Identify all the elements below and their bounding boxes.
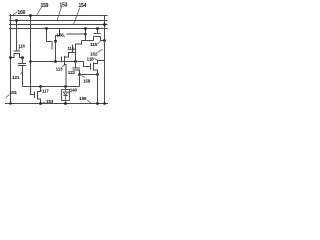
- node junction transistor A source on y61: [54, 60, 57, 63]
- wire 153 bus line L2: [9, 20, 108, 22]
- transistor A gate bar: [51, 42, 53, 50]
- wire 159 bus line L1: [9, 15, 108, 17]
- wire from node down to storage wire y87: [79, 75, 81, 87]
- svg-text:159: 159: [41, 3, 49, 9]
- wire 152 power line vertical right: [104, 16, 106, 104]
- wire 156 bus line L4: [9, 28, 108, 30]
- transistor 115: [94, 29, 105, 41]
- node junction on L4 at x85.5: [84, 27, 87, 30]
- node junction 118 source on y74.5: [96, 73, 99, 76]
- svg-text:153: 153: [46, 99, 54, 104]
- leader for label 154: [74, 8, 81, 25]
- transistor 114 gate bar: [72, 45, 74, 50]
- diode inside 140: [63, 87, 67, 104]
- svg-text:158: 158: [83, 79, 91, 84]
- transistor 117 channel bar: [37, 91, 39, 100]
- svg-text:117: 117: [42, 88, 49, 93]
- leader for label 115: [98, 41, 101, 44]
- svg-text:122: 122: [68, 70, 76, 75]
- light-emitting element 140 box: [62, 90, 70, 101]
- node junction on L4: [45, 27, 48, 30]
- leader for label 153 bottom: [43, 102, 46, 103]
- leader for label 116: [19, 48, 21, 51]
- wire top lead of 117: [38, 87, 41, 92]
- svg-text:156,: 156,: [57, 32, 65, 37]
- leader for label 121: [21, 72, 23, 75]
- wire bottom lead of 118 down to 155: [94, 70, 98, 104]
- leader for label 155: [87, 100, 91, 103]
- svg-text:153: 153: [60, 3, 68, 9]
- svg-text:121: 121: [12, 75, 20, 81]
- wire bottom lead of 113: [65, 65, 67, 87]
- wire bottom lead of 117: [38, 99, 41, 104]
- svg-text:154: 154: [79, 3, 87, 9]
- leader for label 117: [41, 90, 42, 92]
- wire 154 bus line L3: [9, 24, 108, 26]
- svg-text:155: 155: [79, 96, 87, 102]
- svg-text:113: 113: [56, 67, 63, 72]
- leader for label 152: [98, 49, 103, 52]
- wire gate lead of transistor 116 from L2: [16, 21, 18, 52]
- transistor 114 channel bar: [75, 44, 77, 52]
- wire gate lead of 118: [84, 62, 91, 67]
- svg-text:115: 115: [90, 42, 98, 48]
- svg-text:116: 116: [18, 43, 25, 48]
- node junction 152 on L3: [103, 23, 106, 26]
- node junction on L1: [29, 14, 32, 17]
- wire top lead of transistor A jog to L4: [56, 29, 60, 42]
- transistor 113 channel bar: [64, 56, 66, 66]
- svg-text:151: 151: [10, 90, 18, 96]
- node junction capacitor 122 bottom: [78, 73, 81, 76]
- node junction on L2: [15, 19, 18, 22]
- transistor 118 channel bar: [93, 63, 95, 71]
- wire 156 stub: [67, 33, 86, 35]
- node junction 140 top on y87: [64, 85, 67, 88]
- wire 160 vertical signal line: [10, 14, 12, 104]
- capacitor 122: [73, 62, 81, 75]
- node junction 117 source on 155: [39, 102, 42, 105]
- node junction 152 on 155: [103, 102, 106, 105]
- transistor 118 gate bar: [90, 64, 92, 70]
- leader for label 158: [82, 76, 86, 78]
- node capacitor 121 top junction: [21, 56, 24, 59]
- node junction 117 drain on y87: [39, 85, 42, 88]
- node junction 118 source on 155: [96, 102, 99, 105]
- svg-text:160: 160: [18, 10, 26, 16]
- leader for label 151: [6, 95, 10, 98]
- leader for label 159: [37, 7, 42, 15]
- wire top lead of 113: [65, 53, 76, 58]
- leader for label 153: [57, 7, 62, 20]
- wire top lead of 114: [76, 41, 82, 45]
- svg-text:118: 118: [87, 56, 95, 62]
- transistor A channel and source lead: [55, 41, 57, 61]
- node junction at transistor A drain: [54, 40, 57, 43]
- svg-text:140: 140: [70, 88, 78, 93]
- capacitor 121: [18, 58, 26, 87]
- wire vertical from L1 to gate of transistor 117: [31, 16, 35, 95]
- transistor 117 gate bar: [34, 92, 36, 99]
- node junction 115 drain on wiring 152: [103, 39, 106, 42]
- wire bottom lead of 114: [75, 51, 77, 62]
- leader for label 118: [94, 58, 98, 61]
- wire 155 bottom bus: [5, 103, 108, 105]
- wire gate net y61: [31, 61, 84, 63]
- leader for label 160: [13, 12, 17, 15]
- node junction of 160 with transistor 116 source: [9, 56, 12, 59]
- node junction 140 cathode on 155: [64, 102, 67, 105]
- wire right lead of 116 to capacitor node: [20, 54, 23, 58]
- leader for label 140: [68, 92, 69, 93]
- node junction capacitor 122 top on y61: [74, 60, 77, 63]
- wire left lead of 116: [11, 54, 15, 58]
- wire storage node horizontal y87: [23, 86, 80, 88]
- leader for label 114: [74, 48, 76, 50]
- node junction 115 gate on L4: [96, 27, 99, 30]
- transistor 113 gate bar: [61, 57, 63, 62]
- wire node y40.5 between 114 and 115: [82, 40, 94, 42]
- wire y74.5 to transistor 118 source: [80, 74, 98, 76]
- leader for label 113: [62, 65, 64, 67]
- wire top lead of 118 to 152: [94, 61, 105, 64]
- svg-text:114: 114: [68, 46, 75, 51]
- wire from L4 down to node y40.5: [85, 29, 87, 41]
- wire gate lead of diode transistor from L4: [47, 29, 53, 42]
- node junction start of gate wire: [29, 60, 32, 63]
- node junction 160 on 155: [9, 102, 11, 104]
- wire gate lead of 114: [72, 50, 74, 53]
- transistor 116: [14, 51, 21, 54]
- node junction stub 156: [84, 33, 86, 35]
